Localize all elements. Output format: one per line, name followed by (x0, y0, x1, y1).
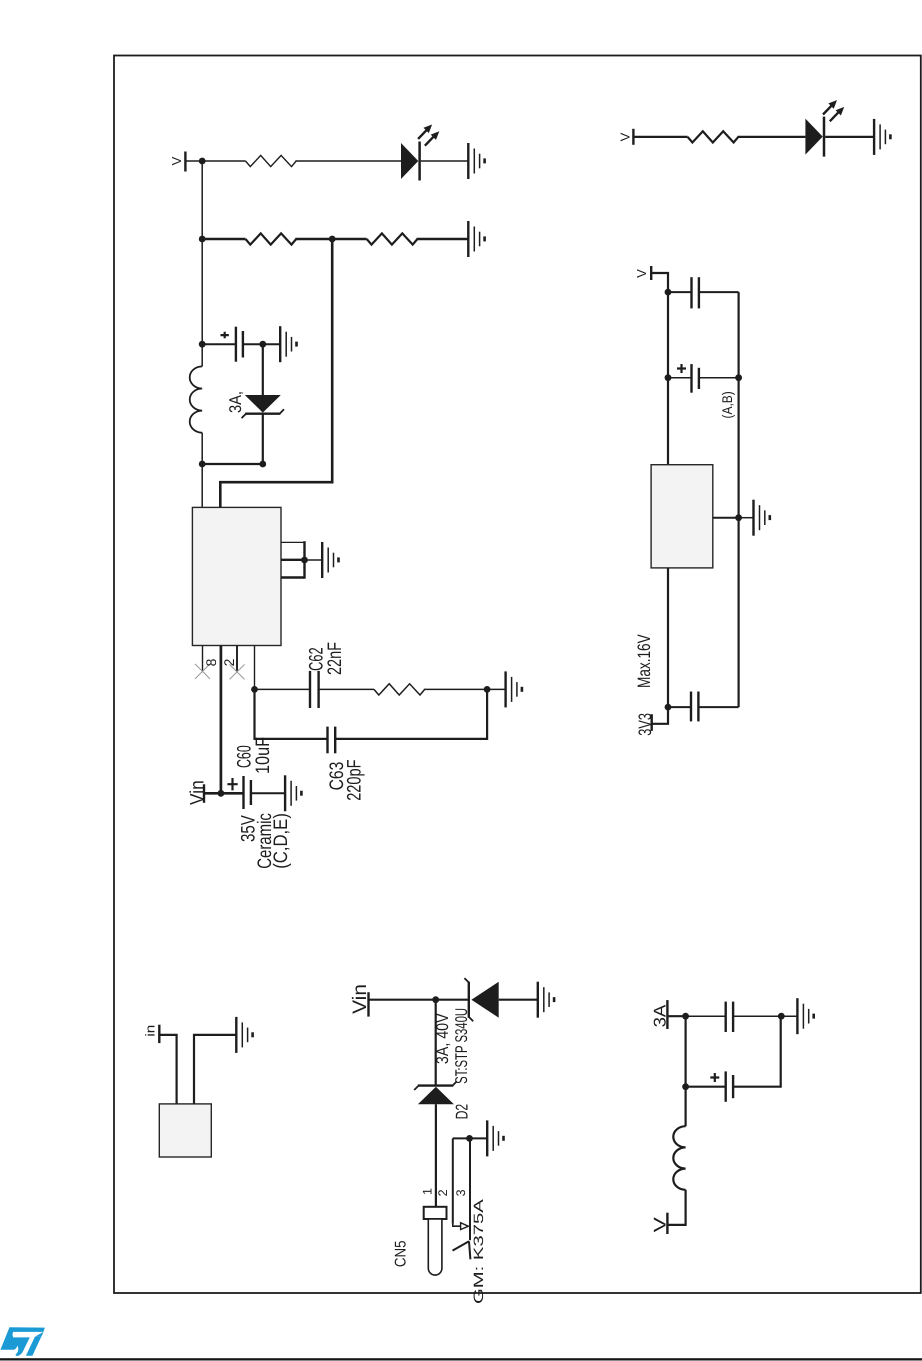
wire switch branch up to rail (202, 463, 263, 465)
wire module to ground (194, 1035, 236, 1104)
capacitor C-lc1 (726, 1002, 733, 1032)
wire LED2 to ground (825, 136, 874, 138)
node V supply label (LED2 chain) (618, 132, 633, 141)
ground (C-out) (280, 326, 296, 362)
wire inductor to V terminal (667, 1190, 685, 1225)
wire gnd rail to ground symbol (739, 517, 754, 519)
connector CN5 plug barrel (428, 1219, 442, 1275)
node junction dot filter right (682, 1013, 689, 1020)
node junction dot comp gnd (484, 686, 491, 693)
label 10uF (252, 737, 274, 774)
ground (IC) (322, 542, 338, 578)
svg-text:CN5: CN5 (392, 1241, 409, 1268)
wire catch diode to switch node (262, 414, 264, 464)
svg-text:1: 1 (421, 1188, 435, 1195)
node junction dot comp (251, 686, 258, 693)
inductor L2 (673, 1126, 685, 1190)
pin 8 stub (NC) (202, 646, 204, 672)
IC U1 regulator body (192, 507, 281, 645)
label Vin (C60 node) (186, 780, 208, 805)
IC bottom stub 1 (281, 576, 305, 578)
wire cap5 branch top (686, 1086, 726, 1088)
ground (comp) (506, 671, 522, 707)
label Vin (connector section) (349, 984, 371, 1014)
label C62 (305, 647, 327, 671)
LED D-led2 (805, 100, 844, 157)
svg-text:V: V (634, 269, 649, 278)
wire IC gnd node to ground (305, 559, 323, 561)
wire 3V3 gnd rail (737, 292, 739, 707)
pin 2 stub (NC) (236, 646, 238, 672)
svg-text:V: V (650, 1216, 669, 1232)
capacitor C-out polarized (221, 327, 243, 362)
label C63 (326, 762, 348, 791)
svg-text:3A,: 3A, (226, 391, 245, 413)
node V supply label (LC input) (650, 1216, 669, 1232)
wire comp node down to C62 (255, 688, 311, 690)
wire cap4 branch top (686, 1015, 726, 1017)
label ST:STP S340U (452, 1008, 471, 1084)
diode D2 schottky (414, 1081, 457, 1104)
wire cap3 branch bottom (698, 706, 738, 708)
wire input rail to regulator (667, 292, 669, 465)
node junction dot divider mid (329, 236, 336, 243)
wire R-div2 to ground (417, 238, 469, 240)
label C60 (233, 745, 255, 768)
wire inductor to switch node (201, 433, 203, 508)
wire Vin terminal to C60 (204, 792, 244, 795)
label 3A (LC output) (650, 1004, 669, 1027)
svg-text:8: 8 (203, 658, 219, 666)
capacitor C-lc2 polarized (710, 1071, 733, 1101)
node junction dot regulator gnd (735, 514, 742, 521)
ground (divider chain) (468, 221, 484, 257)
node junction dot LED1/rail (199, 158, 206, 165)
resistor R-led1 (246, 155, 297, 166)
terminal V (LED1 chain) (184, 152, 186, 172)
wire LED to ground (421, 160, 469, 162)
label CN5 (392, 1241, 409, 1268)
label 22nF (324, 642, 346, 675)
wire C62 to R-comp (319, 688, 374, 690)
node V supply label (3V3 regulator input) (634, 269, 649, 278)
svg-text:3: 3 (454, 1189, 468, 1196)
ground (protection diode) (538, 982, 554, 1018)
wire R-div1 to mid node (295, 238, 366, 240)
switch contact arrow pin 2 (453, 1223, 469, 1230)
wire cap1 branch top (668, 291, 692, 293)
wire C-out to ground node (243, 343, 280, 345)
svg-text:3V3: 3V3 (635, 713, 655, 736)
wire cap1 branch bottom (699, 291, 739, 293)
svg-text:2: 2 (221, 658, 237, 666)
label 3A, (catch diode) (226, 391, 245, 413)
wire cap4 branch bottom (733, 1015, 797, 1017)
no-connect X pin 2 (230, 664, 245, 679)
node junction dot protection (432, 996, 439, 1003)
node junction dot input cap2 (665, 374, 672, 381)
capacitor C60 polarized (227, 776, 251, 809)
IC U2 regulator 3V3 body (651, 465, 713, 568)
node junction dot LC gnd (778, 1013, 785, 1020)
inductor L1 (190, 366, 203, 432)
wire connector pin 2 (452, 1138, 454, 1224)
IC bottom stub 3 (281, 541, 305, 543)
wire output rail (divider to cap node) (201, 239, 203, 366)
label (A,B) (719, 391, 735, 418)
svg-text:Max.16V: Max.16V (634, 634, 654, 688)
label 35V (237, 815, 259, 842)
pin number 1 (421, 1188, 435, 1195)
switch lever pin 3 (453, 1241, 471, 1259)
label (C,D,E) (270, 813, 292, 869)
wire V terminal to input rail (651, 273, 668, 292)
wire C-out node to catch diode (262, 344, 264, 395)
wire protection node to D2 cathode (435, 1000, 437, 1085)
terminal 3A (666, 1000, 668, 1029)
connector CN5 plug collar (424, 1207, 447, 1219)
svg-text:D2: D2 (453, 1104, 472, 1120)
wire C63 branch bottom (335, 689, 487, 739)
IC bottom stub 2 (gnd) (281, 559, 305, 561)
svg-text:(A,B): (A,B) (719, 391, 735, 418)
node junction dot switch/rail (199, 461, 206, 468)
wire rail drop from LED1 node to divider chain (201, 161, 203, 239)
pin number 8 (203, 658, 219, 666)
pin number 3 (454, 1189, 468, 1196)
IC U3 input module body (159, 1104, 211, 1157)
svg-text:2: 2 (436, 1189, 450, 1196)
svg-text:(C,D,E): (C,D,E) (270, 813, 292, 869)
wire filter rail (684, 1016, 686, 1126)
resistor R-div2 (367, 233, 418, 244)
terminal V (LED2 chain) (632, 129, 634, 145)
terminal in (158, 1025, 160, 1043)
node junction dot output cap3 (665, 704, 672, 711)
capacitor C-3v3b polarized (677, 364, 699, 393)
ST logo (0, 1327, 45, 1356)
label GM: K375A (471, 1199, 486, 1304)
wire C60 to ground (251, 792, 285, 794)
svg-text:GM: K375A: GM: K375A (471, 1199, 486, 1304)
svg-text:220pF: 220pF (343, 759, 365, 800)
svg-text:V: V (618, 132, 633, 141)
capacitor C-3v3out (691, 692, 698, 722)
node junction dot IC gnd (301, 557, 308, 564)
label Ceramic (254, 813, 276, 869)
svg-text:22nF: 22nF (324, 642, 346, 675)
wire regulator output rail (667, 568, 669, 707)
node junction dot output cap top (199, 341, 206, 348)
svg-text:3A, 40V: 3A, 40V (433, 1013, 452, 1064)
pin number 2 (221, 658, 237, 666)
node V supply label (LED1 chain) (169, 156, 184, 165)
wire connector pin 3 (469, 1138, 471, 1240)
node junction dot cap2 gnd rail (735, 374, 742, 381)
ground (input module) (236, 1017, 252, 1053)
label 3V3 (635, 713, 655, 736)
label 220pF (343, 759, 365, 800)
wire cap2 branch bottom (699, 377, 739, 379)
wire protection diode to ground (499, 999, 538, 1001)
wire terminal to resistor R-led1 (185, 160, 245, 162)
ground (LC filter) (797, 998, 813, 1034)
ground (C60) (285, 775, 301, 811)
wire module to in terminal (159, 1035, 176, 1104)
node junction dot input cap1 (665, 289, 672, 296)
terminal Vin (203, 784, 205, 803)
svg-text:V: V (169, 156, 184, 165)
capacitor C-3v3a (692, 277, 699, 308)
wire comp gnd node to ground (487, 688, 506, 690)
label 3A, 40V (433, 1013, 452, 1064)
wire cap5 branch bottom to gnd rail (733, 1016, 781, 1086)
wire divider top to resistor R-div1 (202, 238, 245, 240)
label D2 (453, 1104, 472, 1120)
svg-text:10uF: 10uF (252, 737, 274, 774)
ground (3V3 regulator) (754, 500, 770, 536)
wire Vin thick rail (IC to C60 node) (220, 646, 223, 794)
wire cap node down to capacitor C-out (202, 343, 236, 345)
node junction dot connector gnd (466, 1135, 473, 1142)
pin number 2 (436, 1189, 450, 1196)
svg-text:in: in (142, 1025, 157, 1037)
wire terminal to resistor R-led2 (633, 136, 687, 138)
wire comp node to C63 branch top (255, 689, 328, 739)
label Max.16V (634, 634, 654, 688)
wire output to 3V3 terminal (652, 707, 668, 724)
ground (connector) (487, 1120, 503, 1156)
footer rule (0, 1358, 922, 1360)
LED D-led1 (401, 125, 439, 181)
wire resistor to LED D-led1 (295, 160, 401, 162)
node junction dot switch branch (259, 461, 266, 468)
diode D-prot schottky (reverse protection) (464, 978, 498, 1021)
terminal Vin (connector section) (367, 992, 369, 1016)
wire 3A terminal to filter node (667, 1015, 685, 1017)
wire comp pin to comp node (254, 646, 256, 690)
wire resistor to LED D-led2 (738, 136, 806, 138)
ground (LED2 chain) (874, 119, 890, 155)
wire cap3 branch top (668, 706, 691, 708)
resistor R-div1 (246, 233, 297, 244)
node junction dot C-out bottom (259, 341, 266, 348)
no-connect X pin 8 (195, 664, 210, 679)
wire pins 2-3 bracket to gnd (453, 1137, 487, 1139)
wire D2 anode to connector pin 1 (435, 1104, 437, 1207)
wire feedback: divider mid to IC pin (elbow) (220, 239, 332, 507)
capacitor C63 (328, 727, 336, 754)
svg-text:ST:STP S340U: ST:STP S340U (452, 1008, 471, 1084)
label in (142, 1025, 157, 1037)
capacitor C62 (310, 671, 319, 708)
wire cap2 branch top (668, 377, 692, 379)
resistor R-comp (374, 684, 425, 695)
node junction dot divider top (199, 236, 206, 243)
wire bottom stubs bracket (303, 541, 305, 579)
ground (LED1 chain) (468, 143, 484, 179)
terminal V (LC input) (666, 1213, 668, 1234)
wire Vin terminal to protection node (369, 999, 469, 1001)
wire R-comp to comp gnd node (424, 688, 487, 690)
border frame (114, 56, 921, 1294)
terminal 3V3 (651, 714, 653, 731)
diode D-catch schottky 3A (242, 395, 284, 418)
resistor R-led2 (688, 131, 739, 142)
node junction dot Vin rail (218, 790, 225, 797)
wire regulator gnd stub (713, 517, 739, 519)
node junction dot filter left (682, 1083, 689, 1090)
terminal V (3V3 input) (650, 266, 652, 280)
